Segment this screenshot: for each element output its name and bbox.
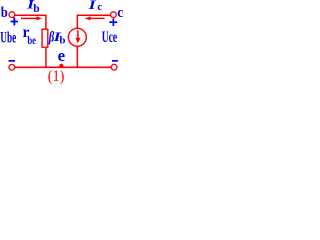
minus sign right (112, 60, 118, 62)
current source arrow shaft (77, 30, 79, 39)
wire collector corner (77, 15, 110, 28)
svg-text:b: b (1, 5, 8, 21)
rail terminal right circle (111, 64, 117, 70)
current arrow Ib head (36, 16, 42, 20)
plus sign right (109, 21, 117, 23)
terminal b circle (9, 12, 15, 18)
current source bottom lead (76, 46, 78, 67)
current arrow Ic shaft (89, 17, 105, 19)
svg-text:c: c (97, 2, 102, 13)
node e junction dot (59, 64, 63, 68)
svg-text:b: b (33, 3, 39, 15)
rail terminal left circle (9, 64, 15, 70)
svg-text:I: I (87, 0, 97, 12)
svg-text:b: b (59, 34, 65, 46)
svg-text:e: e (58, 46, 66, 65)
svg-text:c: c (117, 5, 123, 21)
svg-text:(1): (1) (48, 68, 65, 85)
controlled current source circle (68, 28, 86, 46)
emitter rail wire (15, 66, 112, 68)
svg-text:Ube: Ube (0, 29, 16, 46)
terminal c circle (111, 12, 117, 18)
current arrow Ib shaft (21, 17, 38, 19)
svg-text:Uce: Uce (102, 29, 117, 46)
resistor bottom lead (45, 47, 47, 67)
plus sign left (11, 21, 18, 23)
minus sign left (9, 60, 16, 62)
svg-text:be: be (27, 33, 36, 47)
current source arrow head (75, 38, 80, 43)
resistor r_be body (42, 29, 48, 47)
current arrow Ic head (85, 16, 91, 20)
wire base-to-corner with corner down to resistor (15, 15, 46, 29)
